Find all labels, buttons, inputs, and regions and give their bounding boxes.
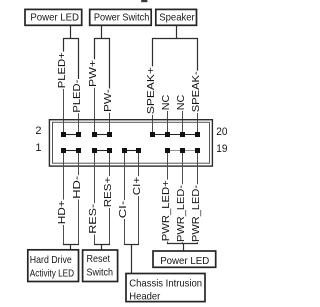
svg-text:Power Switch: Power Switch (94, 11, 150, 23)
svg-text:CI+: CI+ (131, 177, 143, 196)
wire RES+ upper (109, 153, 111, 176)
svg-text:Hard Drive: Hard Drive (30, 254, 72, 266)
wire RES- upper (94, 153, 96, 203)
wire CI+ upper (138, 153, 140, 176)
bracket CI pair (124, 244, 139, 246)
wire PW+ lower (94, 88, 96, 133)
svg-text:Chassis Intrusion: Chassis Intrusion (129, 278, 202, 290)
link top speaker pins (153, 134, 198, 136)
cropped glyph remnant at top edge (141, 0, 147, 2)
bracket Hard Drive pair (63, 244, 79, 246)
svg-text:SPEAK+: SPEAK+ (145, 67, 157, 114)
link top pins 2-4 (64, 134, 79, 136)
svg-text:Switch: Switch (87, 267, 114, 279)
svg-text:NC: NC (160, 94, 172, 110)
wire PWR_LED- mid upper (182, 153, 184, 184)
wire PWR_LED- right lower (197, 242, 199, 243)
stub to Hard Drive box (70, 245, 72, 250)
svg-text:20: 20 (216, 126, 227, 138)
wire CI- upper (124, 153, 126, 200)
wire PWR_LED- right upper (197, 153, 199, 184)
wire PW- lower (109, 113, 111, 133)
wire PWR_LED+ upper (167, 153, 169, 180)
wire SPEAK- lower (197, 113, 199, 133)
svg-text:Reset: Reset (87, 253, 111, 265)
svg-text:PWR_LED-: PWR_LED- (175, 184, 187, 242)
box Reset Switch (83, 250, 118, 282)
svg-text:2: 2 (35, 125, 41, 137)
wire PLED- lower (78, 113, 80, 132)
link bottom pins 1-3 (64, 150, 79, 152)
stub to Reset box (101, 245, 103, 251)
svg-text:NC: NC (175, 94, 187, 110)
wire RES- lower (94, 235, 96, 245)
svg-text:PW+: PW+ (87, 60, 99, 87)
box Chassis Intrusion Header (126, 274, 205, 303)
svg-text:Activity LED: Activity LED (30, 268, 75, 280)
wire RES+ lower (109, 208, 111, 245)
wire HD+ upper (63, 153, 65, 200)
wire SPEAK+ lower (152, 115, 154, 133)
svg-text:PWR_LED-: PWR_LED- (190, 184, 202, 242)
box Hard Drive Activity LED (28, 250, 79, 282)
wire PLED+ lower (63, 89, 65, 133)
wire stub from Power LED box (70, 25, 72, 38)
box Speaker (top) (156, 9, 197, 25)
wire CI+ lower (138, 196, 140, 245)
pin squares bottom row (61, 148, 200, 153)
wire PWR_LED+ lower (167, 242, 169, 244)
connector outer body (49, 120, 212, 166)
svg-text:1: 1 (35, 142, 41, 154)
svg-text:PLED+: PLED+ (56, 52, 68, 88)
svg-text:SPEAK-: SPEAK- (190, 71, 202, 113)
pin squares top row (61, 132, 200, 137)
link top pins 6-8 (95, 134, 110, 136)
bracket Speaker pair (153, 39, 198, 71)
wire stub from Speaker box (176, 25, 178, 38)
connector inner body (53, 122, 210, 163)
wire NC pin16 lower (167, 111, 169, 133)
wire stub from Power Switch box (101, 25, 103, 38)
svg-text:Power LED: Power LED (30, 11, 79, 23)
svg-text:RES-: RES- (87, 203, 99, 234)
bracket Power Switch pair (95, 39, 110, 89)
svg-text:HD-: HD- (71, 175, 83, 199)
box Power LED (top) (25, 9, 82, 25)
wire HD+ lower (63, 225, 65, 245)
bracket Reset pair (94, 244, 110, 246)
wire HD- lower (78, 200, 80, 245)
svg-text:PW-: PW- (102, 89, 114, 112)
svg-text:Power LED: Power LED (160, 255, 209, 267)
bracket PWR_LED trio (167, 243, 198, 245)
link bottom PWR_LED pins (168, 150, 198, 152)
svg-text:Speaker: Speaker (159, 11, 195, 23)
svg-text:Header: Header (129, 291, 160, 303)
stub to Power LED box (183, 244, 185, 252)
wire PWR_LED- mid lower (182, 242, 184, 243)
wire CI- lower (124, 219, 126, 245)
box Power LED (bottom) (153, 251, 216, 267)
wire HD- upper (78, 153, 80, 175)
box Power Switch (top) (90, 9, 152, 25)
svg-text:HD+: HD+ (56, 200, 68, 224)
wire NC pin18 lower (182, 111, 184, 133)
link bottom CI pins (125, 150, 139, 152)
link bottom pins 5-7 (95, 150, 110, 152)
svg-text:PLED-: PLED- (71, 79, 83, 112)
svg-text:19: 19 (216, 143, 227, 155)
stub to Chassis box (131, 245, 133, 274)
svg-text:PWR_LED+: PWR_LED+ (160, 180, 172, 241)
svg-text:CI-: CI- (117, 200, 129, 218)
bracket Power LED pair (64, 39, 79, 80)
svg-text:RES+: RES+ (102, 177, 114, 208)
